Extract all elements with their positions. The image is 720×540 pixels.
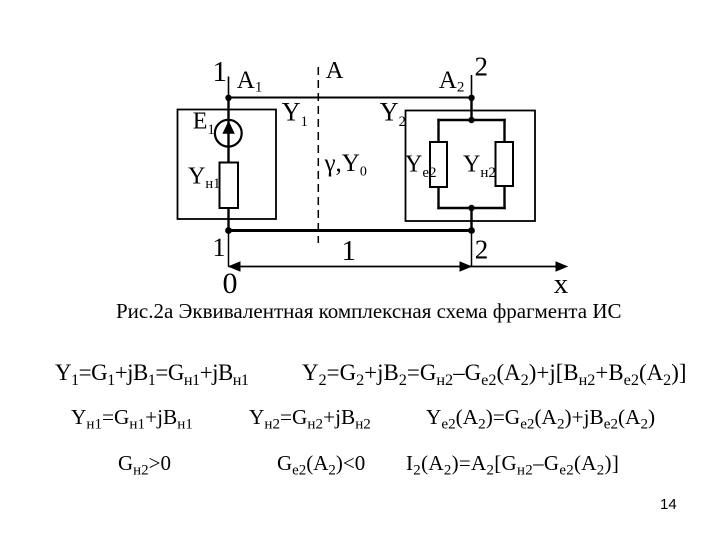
- node 2' junction dot: [468, 227, 475, 234]
- svg-text:E1: E1: [193, 108, 215, 138]
- source E1 arrow: [222, 121, 234, 134]
- wire: tick below node 1': [228, 231, 230, 267]
- wire: tick below node 2': [471, 231, 473, 267]
- dashed section line gamma,Y0: [317, 67, 319, 243]
- wire: stub to Ye2 top: [437, 119, 439, 143]
- caption: Рис.2а Эквивалентная комплексная схема фрагмента ИС: [116, 299, 622, 324]
- axis arrowhead at x end: [556, 261, 569, 271]
- wire: inner bottom rail: [437, 207, 506, 209]
- wire: top bus from node 1 to node 2: [228, 97, 473, 99]
- svg-text:γ,Y0: γ,Y0: [324, 150, 367, 180]
- svg-text:2: 2: [475, 51, 489, 81]
- wire: segment through source circle: [227, 121, 229, 147]
- svg-text:A: A: [326, 57, 344, 84]
- wire: vertical branch at x=228.5 from node 1 to bottom bus: [227, 98, 229, 231]
- formula Yn1 = Gn1+jBn1: [71, 406, 193, 429]
- svg-text:Yн2: Yн2: [463, 151, 496, 181]
- svg-text:1: 1: [213, 233, 226, 262]
- formula Y2 = G2+jB2 = Gn2-Ge2(A2)+j[Bn2+Be2(A2)]: [302, 360, 686, 385]
- wire: inner top rail: [437, 119, 506, 121]
- wire: stub from Yn2 bottom to inner bottom rail: [503, 186, 505, 209]
- junction dot on inner bottom rail: [468, 205, 474, 211]
- wire: vertical from node 2 down to parallel rail: [470, 98, 472, 122]
- node 1 junction dot: [225, 95, 231, 101]
- svg-text:1: 1: [213, 56, 228, 88]
- svg-text:1: 1: [342, 235, 357, 267]
- formula Gn2 > 0: [118, 452, 171, 475]
- svg-text:A1: A1: [237, 67, 263, 96]
- resistor Ye2: [430, 142, 447, 187]
- svg-text:x: x: [554, 268, 569, 300]
- page number 14: [660, 496, 677, 513]
- node 1' junction dot: [225, 227, 232, 234]
- formula I2(A2)=A2[Gn2-Ge2(A2)]: [406, 452, 619, 475]
- wire: vertical from rail down to bottom bus: [470, 208, 472, 231]
- wire: terminal tick above node 2: [471, 75, 473, 98]
- resistor Yn1: [220, 163, 239, 209]
- svg-text:0: 0: [223, 267, 238, 300]
- formula Ge2(A2) < 0: [277, 452, 365, 475]
- formula Y1 = G1+jB1 = Gn1+jBn1: [55, 360, 249, 385]
- resistor Yn2: [496, 142, 514, 186]
- formula Ye2(A2) = Ge2(A2)+jBe2(A2): [426, 406, 655, 429]
- dimension arrowhead left at 0: [228, 261, 241, 271]
- formula Yn2 = Gn2+jBn2: [249, 406, 371, 429]
- enclosure box of Ye2 and Yn2: [406, 111, 536, 222]
- node 2 junction dot: [468, 95, 474, 101]
- svg-text:Y2: Y2: [380, 98, 406, 131]
- x axis line: [229, 266, 567, 268]
- source E1 circle: [215, 120, 242, 147]
- svg-text:A2: A2: [439, 67, 465, 96]
- wire: terminal tick above node 1: [228, 77, 230, 98]
- dimension arrowhead right at node 2: [460, 261, 473, 271]
- svg-text:Y1: Y1: [282, 98, 308, 131]
- svg-text:2: 2: [475, 235, 489, 265]
- wire: stub to Yn2 top: [503, 119, 505, 143]
- junction dot on inner top rail: [468, 117, 474, 123]
- enclosure box of source E1 and load Yn1: [178, 110, 277, 220]
- wire: bottom bus from node 1' to node 2': [227, 229, 473, 232]
- svg-text:Yн1: Yн1: [188, 164, 220, 193]
- wire: stub from Ye2 bottom to inner bottom rail: [437, 187, 439, 209]
